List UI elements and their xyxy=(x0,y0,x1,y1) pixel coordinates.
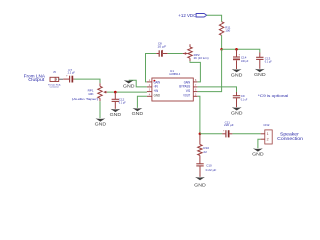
svg-text:0.22 µF: 0.22 µF xyxy=(206,168,217,172)
wire RP2 bottom to pin 8 (GAIN) xyxy=(190,61,200,82)
svg-text:*C9 is optional: *C9 is optional xyxy=(258,93,288,98)
node C14 tap xyxy=(235,48,238,51)
svg-text:10K: 10K xyxy=(88,92,94,96)
wire pin 5 (VOUT) to output node xyxy=(197,96,200,134)
svg-text:GND: GND xyxy=(132,111,144,116)
wire pin 1 (GAIN) to C8 xyxy=(146,54,157,82)
pin 5 (right) xyxy=(193,95,197,97)
connector J5 (female RCA) xyxy=(48,70,63,88)
svg-text:1: 1 xyxy=(267,132,269,136)
svg-text:GND: GND xyxy=(231,111,243,116)
svg-text:VOUT: VOUT xyxy=(183,94,190,98)
svg-text:2K (10 turn): 2K (10 turn) xyxy=(194,56,209,60)
ground GND at C13 xyxy=(254,69,266,77)
capacitor C9 0.1uF xyxy=(233,92,248,107)
ground GND at RP1 xyxy=(95,118,107,126)
wire pin 4 (GND) to ground xyxy=(137,96,147,108)
wire output node to C11 xyxy=(200,133,222,135)
svg-text:2.2 µF: 2.2 µF xyxy=(68,70,75,74)
capacitor C12 0.1uF xyxy=(112,92,126,109)
svg-text:(Audio Taper): (Audio Taper) xyxy=(72,97,99,101)
svg-text:+: + xyxy=(223,129,225,132)
svg-text:BYPASS: BYPASS xyxy=(179,85,191,89)
ground GND at CN2 xyxy=(252,148,264,156)
svg-text:GND: GND xyxy=(123,84,135,89)
svg-text:Connector: Connector xyxy=(50,86,60,89)
ground GND at C9 xyxy=(231,107,243,115)
wire RP1 wiper to pin 3 (+IN) xyxy=(107,91,147,93)
ground GND at C12 xyxy=(110,109,122,117)
wire CN2 pin 2 to ground xyxy=(258,139,261,148)
IC U1 LM386N-3 xyxy=(147,69,198,101)
svg-text:+IN: +IN xyxy=(154,89,159,93)
wire R11 to +12V junction xyxy=(221,35,223,49)
wire C7 to RP1 top xyxy=(74,79,100,83)
pin 7 (right) xyxy=(193,86,197,88)
pin 8 (right) xyxy=(193,81,197,83)
svg-text:GND: GND xyxy=(252,152,264,157)
svg-text:GND: GND xyxy=(110,112,122,117)
svg-text:VS: VS xyxy=(186,89,191,93)
capacitor C14 100uF xyxy=(233,49,248,69)
svg-text:0.1 uF: 0.1 uF xyxy=(241,98,248,102)
node junction C12 tap xyxy=(114,91,117,94)
wire +12V flag to R11 xyxy=(207,15,222,21)
node +12V rail junction xyxy=(220,48,223,51)
resistor R11 100 xyxy=(219,22,230,36)
potentiometer RP1 10K (Audio Taper) xyxy=(72,83,107,101)
svg-text:+: + xyxy=(162,49,164,52)
svg-text:J5: J5 xyxy=(53,70,56,74)
annotation "From LNA Output" xyxy=(24,73,46,82)
capacitor C10 0.22uF xyxy=(196,164,216,177)
wire pin 7 (BYPASS) to C9 xyxy=(197,87,236,92)
svg-text:10 µF: 10 µF xyxy=(157,45,166,49)
svg-text:Connection: Connection xyxy=(277,136,303,142)
wire junction down to pin 6 (VS) xyxy=(197,49,221,91)
svg-text:100 µF: 100 µF xyxy=(241,59,249,63)
svg-text:LM386N-3: LM386N-3 xyxy=(169,72,180,76)
svg-text:-IN: -IN xyxy=(154,85,159,89)
pin 2 (left) xyxy=(147,86,152,88)
connector CN2 speaker xyxy=(261,123,273,144)
node output junction xyxy=(199,133,202,136)
ground GND at pin 2 xyxy=(123,80,135,88)
svg-text:100: 100 xyxy=(225,29,230,33)
svg-text:0.1 µF: 0.1 µF xyxy=(265,60,272,64)
svg-text:GND: GND xyxy=(95,122,107,127)
annotation "Speaker Connection" xyxy=(277,131,303,142)
pin 6 (right) xyxy=(193,91,197,93)
svg-text:+12 VDC: +12 VDC xyxy=(178,13,197,18)
pin 3 (left) xyxy=(147,91,152,93)
svg-text:+: + xyxy=(66,75,68,78)
wire C8 to RP2 wiper xyxy=(168,53,183,55)
resistor R10 22 xyxy=(198,134,210,164)
wire +12V junction to C13 xyxy=(222,49,260,52)
power flag +12 VDC xyxy=(178,13,206,18)
capacitor C7 2.2uF xyxy=(63,68,75,83)
capacitor C11 220uF xyxy=(222,120,234,137)
ground GND at C14 xyxy=(231,69,243,77)
capacitor C8 10uF xyxy=(156,42,167,57)
capacitor C13 0.1uF xyxy=(256,53,272,69)
svg-text:Output: Output xyxy=(28,77,45,82)
svg-text:GND: GND xyxy=(231,72,243,77)
svg-text:22: 22 xyxy=(203,150,207,154)
ground GND at C10 xyxy=(194,177,206,187)
wire C11 to CN2 pin 1 xyxy=(232,133,260,135)
svg-text:CN2: CN2 xyxy=(263,123,269,127)
ground GND at pin 4 xyxy=(132,108,144,116)
pin 1 (left) xyxy=(147,81,152,83)
potentiometer RP2 2K (10 turn) xyxy=(183,44,209,61)
svg-text:0.1 µF: 0.1 µF xyxy=(119,100,126,104)
svg-text:GND: GND xyxy=(154,94,161,98)
svg-text:GND: GND xyxy=(194,182,206,187)
svg-text:220 µF: 220 µF xyxy=(224,123,234,127)
svg-text:GND: GND xyxy=(254,72,266,77)
wire pin 2 (-IN) to ground xyxy=(129,80,147,87)
svg-text:2: 2 xyxy=(267,138,269,142)
pin 4 (left) xyxy=(147,95,152,97)
wire RP1 bottom to ground xyxy=(99,101,101,118)
